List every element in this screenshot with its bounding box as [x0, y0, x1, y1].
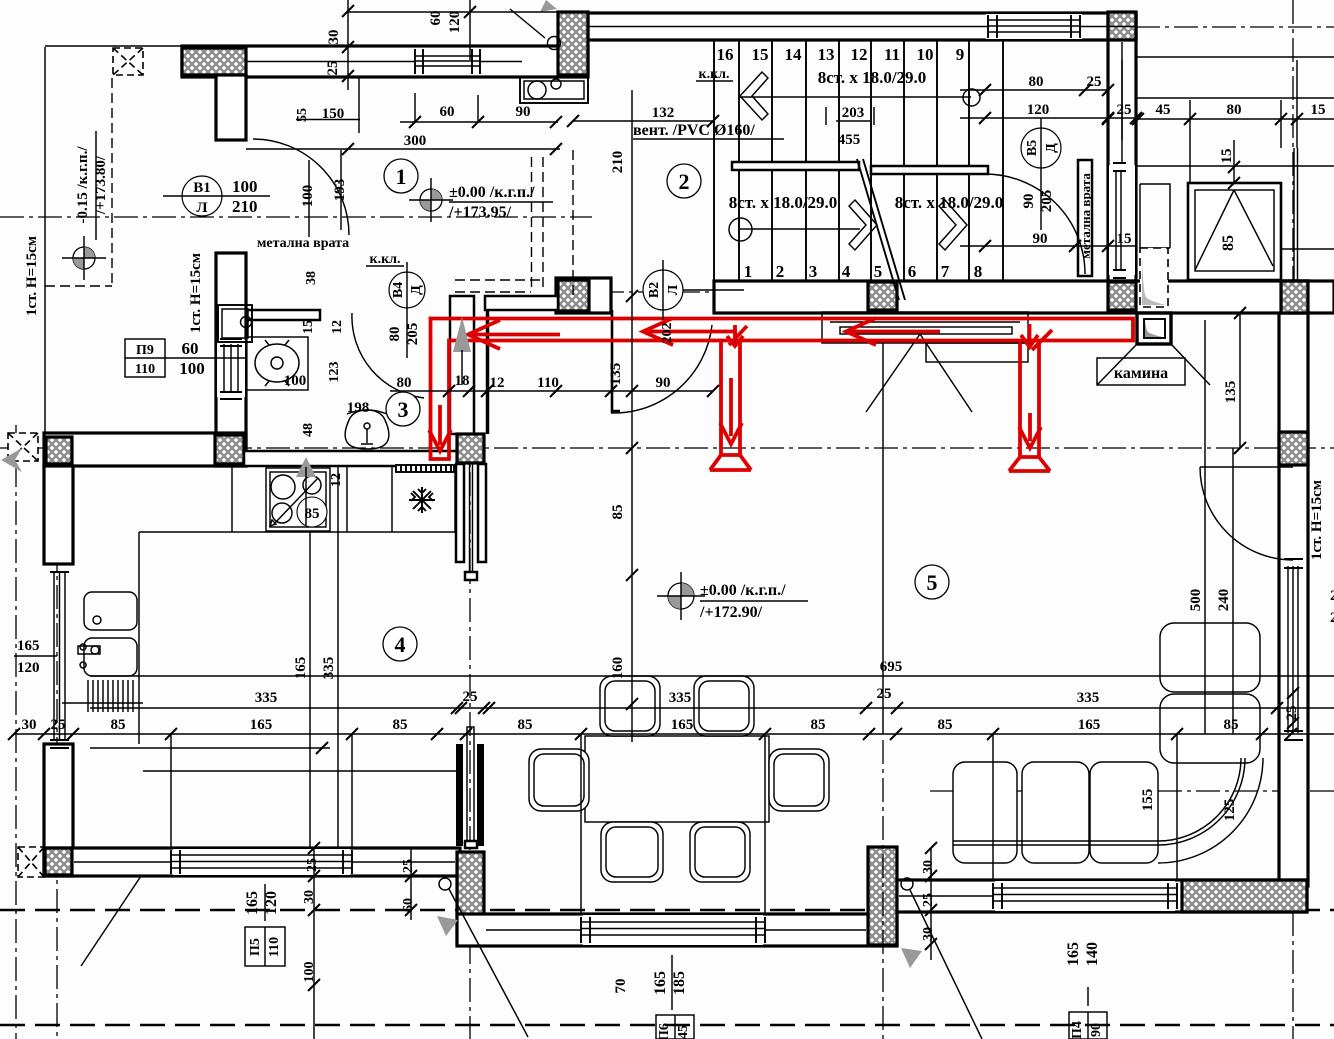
fireplace label box: [1097, 344, 1210, 385]
window in right outer wall: [1281, 559, 1306, 740]
svg-text:240: 240: [1216, 589, 1232, 612]
svg-text:55: 55: [295, 108, 310, 122]
svg-text:695: 695: [880, 659, 903, 675]
svg-text:125: 125: [1222, 799, 1238, 822]
svg-text:300: 300: [404, 133, 427, 149]
svg-text:25: 25: [463, 689, 478, 705]
svg-text:185: 185: [671, 971, 688, 995]
window P5 in bottom-left wall: [171, 849, 352, 875]
svg-text:80: 80: [397, 375, 412, 391]
red arrow in band 2: [643, 318, 737, 345]
svg-text:90: 90: [516, 104, 531, 120]
svg-text:15: 15: [1219, 149, 1235, 164]
svg-text:165: 165: [652, 971, 669, 995]
red path band: [431, 319, 1134, 460]
washing machine: [218, 305, 252, 342]
kitchen passage wall / sliding door: [456, 464, 464, 562]
fireplace lower box: [926, 343, 1028, 362]
entry door arc B1: [253, 139, 349, 235]
svg-text:48: 48: [301, 423, 316, 437]
svg-text:6: 6: [908, 262, 917, 281]
kitchen counter front edge: [139, 532, 455, 744]
svg-text:45: 45: [676, 1025, 691, 1039]
svg-text:150: 150: [322, 106, 345, 122]
room 2: [667, 164, 701, 198]
hatched column right wall / band: [1281, 281, 1308, 313]
vertical dims room5: [1205, 320, 1233, 734]
bottom-right vertical dim chain: [930, 848, 932, 960]
dish rack: [62, 680, 143, 712]
dim 15 window bay: [1233, 140, 1235, 183]
svg-text:30: 30: [921, 927, 936, 941]
svg-text:В5: В5: [1025, 140, 1040, 156]
svg-text:25: 25: [325, 61, 341, 76]
leader bottom-left window: [81, 876, 141, 966]
window in left outer wall: [50, 564, 69, 748]
left outer wall lower piece: [44, 744, 73, 876]
terrace door arc right wall: [1200, 467, 1293, 560]
svg-text:120: 120: [447, 11, 463, 34]
svg-text:60: 60: [428, 11, 444, 26]
hatched wall segment bottom-right: [1182, 880, 1307, 912]
svg-text:25: 25: [1087, 74, 1102, 90]
bottom-left outer wall band: [44, 848, 460, 876]
svg-text:12: 12: [329, 473, 344, 487]
corridor dim row: [390, 390, 713, 392]
grey arrow on stove: [296, 457, 316, 477]
bath left wall: [216, 253, 246, 466]
counter dividers: [232, 466, 455, 532]
room 5: [915, 565, 949, 599]
door id B1: [163, 176, 270, 216]
stair walk circles: [963, 89, 980, 106]
svg-text:90: 90: [1089, 1023, 1104, 1037]
window id P9: [125, 339, 246, 378]
crossed column box left of band: [8, 433, 38, 461]
svg-text:30: 30: [302, 890, 317, 904]
svg-text:25: 25: [401, 859, 416, 873]
slope mark bottom left: [439, 878, 451, 890]
dim top horizontal line: [348, 11, 560, 13]
svg-text:камина: камина: [1114, 365, 1168, 382]
svg-text:8ст. x 18.0/29.0: 8ст. x 18.0/29.0: [818, 68, 927, 87]
dim 55 150 porch: [296, 78, 360, 133]
svg-text:8ст. x 18.0/29.0: 8ст. x 18.0/29.0: [895, 193, 1004, 212]
svg-text:335: 335: [255, 690, 278, 706]
circle 85 over stove: [297, 497, 327, 527]
svg-text:1ст. Н=15см: 1ст. Н=15см: [24, 236, 40, 316]
dim row B: [14, 733, 1334, 735]
svg-text:16: 16: [717, 45, 734, 64]
fireplace flue box: [1137, 313, 1171, 344]
svg-text:15: 15: [301, 320, 316, 334]
hatch pier on right wall (axis level): [1279, 432, 1308, 465]
bath bottom wall: [244, 451, 459, 466]
axis dash-dot lines: [0, 216, 592, 218]
svg-text:3: 3: [809, 262, 818, 281]
stair walk lines: [739, 97, 971, 229]
svg-text:В4: В4: [391, 282, 406, 298]
hall door arc at B2 opening: [611, 325, 712, 413]
sofa corner group: [953, 623, 1263, 863]
window bay 85 top right: [1188, 183, 1281, 280]
stair tread numbers lower flight: [744, 262, 983, 281]
dashed niche box: [1140, 248, 1168, 307]
svg-text:60: 60: [182, 339, 199, 358]
svg-text:120: 120: [263, 891, 280, 915]
svg-text:500: 500: [1188, 589, 1204, 612]
svg-text:85: 85: [811, 717, 826, 733]
dim chain top-left vertical: [347, 0, 349, 90]
svg-text:30: 30: [921, 860, 936, 874]
vertical dims room4: [310, 466, 338, 848]
porch dashed edge: [45, 78, 112, 286]
svg-text:2: 2: [1330, 610, 1334, 626]
door leaf B5: [1078, 160, 1092, 276]
window id P4: [1065, 942, 1107, 1039]
plot boundary long-dash line lower: [0, 1024, 1334, 1026]
svg-text:15: 15: [752, 45, 769, 64]
svg-text:Д: Д: [409, 285, 424, 295]
dim row A 335: [90, 707, 1334, 709]
svg-text:100: 100: [179, 359, 205, 378]
tall hatched pillar right of dining bay: [868, 847, 897, 945]
svg-text:100: 100: [300, 185, 316, 208]
dim B5 area: [960, 90, 1136, 118]
dim 85 left mid: [631, 296, 633, 742]
svg-text:к.кл.: к.кл.: [699, 67, 730, 82]
left wing bottom wall band: [44, 433, 246, 466]
svg-text:8: 8: [974, 262, 983, 281]
bottom-left vertical dim chain: [314, 848, 411, 1039]
left outer wall upper piece: [44, 466, 73, 564]
door leaf B2: [611, 310, 620, 413]
svg-text:120: 120: [1027, 102, 1050, 118]
extension lines for bottom dims: [171, 704, 1177, 914]
axis arrow left: [1, 448, 22, 472]
red right drop: [1009, 341, 1050, 472]
bath left wall upper piece (door jamb): [216, 75, 246, 140]
hatched column below stairs (mid): [868, 282, 897, 310]
svg-text:110: 110: [267, 937, 282, 957]
stair break line: [857, 159, 905, 300]
entry washbasin box at top wall: [520, 77, 588, 103]
toilet: [345, 410, 389, 449]
right outer wall of plan: [1279, 281, 1308, 886]
wall band mid lines: [246, 27, 1136, 62]
svg-text:15: 15: [1117, 231, 1132, 247]
svg-text:Л: Л: [666, 284, 681, 295]
door arc B5: [985, 174, 1085, 274]
window P9 in bath wall: [217, 339, 245, 399]
hatch pier at bath corner: [215, 435, 244, 464]
canopy thin lines top right: [1136, 98, 1334, 249]
svg-text:100: 100: [302, 962, 317, 983]
svg-text:1: 1: [744, 262, 753, 281]
thin pipe lines right side: [1294, 148, 1298, 281]
svg-text:85: 85: [1220, 235, 1237, 251]
svg-text:1: 1: [396, 164, 407, 189]
svg-text:85: 85: [518, 717, 533, 733]
bath top wall: [243, 310, 320, 320]
svg-text:135: 135: [608, 363, 624, 386]
pier next to bay: [1140, 184, 1170, 248]
svg-text:205: 205: [405, 323, 421, 346]
svg-text:85: 85: [393, 717, 408, 733]
svg-text:±0.00 /к.г.п./: ±0.00 /к.г.п./: [449, 184, 535, 201]
svg-text:7: 7: [941, 262, 950, 281]
hatched wall pier top-left: [182, 48, 246, 75]
svg-text:100: 100: [232, 177, 258, 196]
stair landing edge bars: [732, 162, 859, 170]
room 4: [383, 627, 417, 661]
svg-text:15: 15: [1311, 102, 1326, 118]
svg-text:/+173.95/: /+173.95/: [448, 204, 512, 221]
corridor top wall: [485, 296, 558, 310]
dim bracket lines room4: [90, 748, 457, 771]
dim 132 210: [573, 120, 713, 122]
red arrow in band 3: [846, 318, 940, 345]
svg-text:155: 155: [1140, 789, 1156, 812]
room 1: [384, 159, 418, 193]
top outer wall band (entry side): [45, 45, 182, 47]
svg-text:205: 205: [1039, 190, 1055, 213]
door id B5: [1021, 118, 1061, 230]
svg-text:198: 198: [347, 400, 370, 416]
window B1-area 60 in top wall: [413, 48, 482, 75]
level symbol living room: [657, 572, 705, 620]
svg-text:202: 202: [660, 323, 675, 344]
svg-text:25: 25: [921, 893, 936, 907]
hatch pier at kitchen corner: [457, 434, 484, 463]
svg-text:14: 14: [785, 45, 803, 64]
stair direction chevron lower-left: [849, 200, 877, 250]
duct shaft wall (entry/kitchen): [450, 296, 474, 434]
grey door arrow entry: [453, 317, 471, 352]
svg-text:2: 2: [776, 262, 785, 281]
svg-text:5: 5: [927, 570, 938, 595]
svg-text:4: 4: [395, 632, 406, 657]
dim 90 15 B5: [960, 245, 1136, 247]
svg-text:210: 210: [232, 197, 258, 216]
svg-text:165: 165: [671, 717, 694, 733]
svg-text:30: 30: [22, 717, 37, 733]
svg-text:1ст. Н=15см: 1ст. Н=15см: [188, 253, 204, 333]
level symbol hall: [409, 178, 453, 222]
wall piece with hatched column at corridor end: [556, 278, 611, 313]
svg-text:10: 10: [917, 45, 934, 64]
svg-text:85: 85: [1224, 717, 1239, 733]
svg-text:±0.00 /к.г.п./: ±0.00 /к.г.п./: [700, 582, 786, 599]
chair top 2: [694, 676, 754, 736]
svg-text:В1: В1: [193, 180, 211, 196]
freezer symbol: [409, 487, 435, 513]
stair block top wall: [588, 13, 1136, 40]
svg-text:85: 85: [305, 506, 320, 522]
svg-text:8ст. x 18.0/29.0: 8ст. x 18.0/29.0: [729, 193, 838, 212]
svg-text:135: 135: [1223, 381, 1239, 404]
bath door arc B4: [352, 313, 424, 398]
corridor wall stub: [486, 310, 490, 434]
svg-text:85: 85: [610, 505, 626, 520]
kitchen sink double basin: [84, 592, 137, 630]
svg-text:вент. /PVC Ø160/: вент. /PVC Ø160/: [633, 122, 755, 139]
stair tread numbers upper flight: [717, 45, 965, 64]
svg-text:П6: П6: [657, 1023, 672, 1039]
stove: [266, 468, 330, 531]
dim 300: [246, 148, 560, 150]
svg-text:25: 25: [877, 686, 892, 702]
svg-text:110: 110: [537, 375, 559, 391]
svg-text:25: 25: [305, 858, 320, 872]
axis dash-dot top right: [1136, 26, 1334, 28]
window P4 in bottom-right wall: [993, 881, 1177, 911]
svg-text:38: 38: [304, 271, 319, 285]
svg-text:80: 80: [1227, 102, 1242, 118]
svg-text:12: 12: [490, 375, 505, 391]
svg-text:335: 335: [1077, 690, 1100, 706]
fireplace hearth: [822, 312, 1028, 343]
svg-text:90: 90: [1033, 231, 1048, 247]
svg-text:90: 90: [656, 375, 671, 391]
svg-text:210: 210: [610, 151, 626, 174]
red arrow in band 1: [468, 320, 560, 349]
window id P5: [244, 884, 285, 966]
svg-text:11: 11: [884, 45, 900, 64]
hatched column stair/right wall corner: [1108, 282, 1136, 310]
svg-text:60: 60: [401, 898, 416, 912]
svg-text:4: 4: [842, 262, 851, 281]
svg-text:85: 85: [111, 717, 126, 733]
svg-text:5: 5: [874, 262, 883, 281]
svg-text:90: 90: [1021, 194, 1037, 209]
svg-text:120: 120: [17, 660, 40, 676]
dining table: [585, 736, 769, 822]
section mark top: [540, 0, 557, 12]
svg-text:30: 30: [326, 30, 342, 45]
red down arrow in left drop: [429, 405, 451, 451]
svg-text:/+172.90/: /+172.90/: [699, 604, 763, 621]
svg-text:13: 13: [818, 45, 835, 64]
svg-text:80: 80: [387, 327, 403, 342]
hatched pier top of stair right wall: [1108, 12, 1136, 40]
dim 25 right wall low: [1287, 687, 1299, 729]
dim row A 695: [90, 675, 1334, 677]
svg-text:110: 110: [135, 362, 155, 377]
hatch pier bottom-left corner: [45, 848, 72, 875]
dim row top right: [1136, 56, 1334, 58]
svg-text:9: 9: [956, 45, 965, 64]
window P6 in dining bay wall: [581, 915, 765, 945]
red middle drop: [710, 341, 751, 471]
svg-text:12: 12: [851, 45, 868, 64]
chair left: [529, 749, 589, 811]
svg-text:85: 85: [938, 717, 953, 733]
crossed column box on top wall: [113, 48, 143, 75]
dining bay bottom wall: [457, 914, 897, 946]
stair direction chevron upper: [740, 72, 768, 120]
svg-text:2: 2: [1330, 588, 1334, 604]
svg-text:203: 203: [842, 105, 865, 121]
door id B4: [389, 262, 425, 358]
chair top 1: [600, 676, 660, 736]
svg-text:к.кл.: к.кл.: [370, 252, 401, 267]
stair block right wall: [1108, 13, 1136, 281]
svg-text:132: 132: [652, 105, 675, 121]
left porch boundary thin line: [44, 47, 46, 433]
kitchen passage lower wall piece with pocket door: [456, 744, 463, 846]
svg-text:3: 3: [398, 397, 409, 422]
svg-text:метална врата: метална врата: [257, 236, 349, 251]
window in stair top wall: [986, 14, 1082, 39]
level symbol porch: [62, 236, 106, 280]
svg-text:80: 80: [1029, 74, 1044, 90]
svg-text:П9: П9: [136, 343, 154, 358]
svg-text:455: 455: [838, 132, 861, 148]
svg-text:193: 193: [332, 179, 348, 202]
svg-text:165: 165: [17, 638, 40, 654]
svg-text:1ст. Н=15см: 1ст. Н=15см: [1309, 480, 1325, 560]
svg-text:140: 140: [1084, 942, 1101, 966]
svg-text:Л: Л: [196, 200, 207, 216]
svg-text:165: 165: [1078, 717, 1101, 733]
window id P6: [652, 955, 694, 1039]
stair direction chevron lower-right: [939, 200, 967, 250]
svg-text:70: 70: [613, 979, 629, 994]
svg-text:100: 100: [284, 373, 307, 389]
svg-text:Д: Д: [1044, 143, 1059, 153]
svg-text:В2: В2: [647, 282, 662, 298]
svg-text:165: 165: [1065, 942, 1082, 966]
crossed column box bottom-left: [18, 847, 44, 877]
dim 135 fireplace right: [1239, 313, 1241, 448]
svg-text:-0.15 /к.г.п./: -0.15 /к.г.п./: [75, 146, 91, 224]
slope mark bottom right: [901, 878, 913, 890]
svg-text:П5: П5: [248, 938, 263, 956]
hatched column at hall/stair corner (tall): [558, 12, 588, 75]
wall band below stairs: [714, 281, 1334, 313]
svg-text:165: 165: [244, 891, 261, 915]
hatch pier on right wall (mid): [1279, 281, 1308, 313]
svg-text:2: 2: [679, 169, 690, 194]
chair right: [769, 749, 829, 811]
svg-text:12: 12: [330, 320, 345, 334]
svg-text:335: 335: [669, 690, 692, 706]
svg-text:123: 123: [327, 362, 342, 383]
svg-text:П4: П4: [1070, 1021, 1085, 1039]
vent duct dashed lines: [455, 157, 543, 292]
dim 25 kitchen passage: [451, 702, 490, 714]
window in stair right wall: [1109, 163, 1135, 278]
washbasin: [246, 337, 308, 390]
svg-text:25: 25: [1117, 102, 1132, 118]
tall hatched pillar left of dining bay: [457, 852, 484, 944]
radiator strip below bath wall: [396, 465, 454, 472]
dim 60 90 window top: [400, 93, 558, 122]
svg-text:60: 60: [440, 104, 455, 120]
chair bottom 2: [690, 822, 750, 882]
bottom-right outer wall band: [897, 880, 1307, 912]
hatch pier left end: [46, 437, 72, 464]
room 3: [386, 392, 420, 426]
svg-text:45: 45: [1156, 102, 1171, 118]
stair risers: [739, 40, 969, 281]
svg-text:25: 25: [51, 717, 66, 733]
chair bottom 1: [601, 822, 663, 882]
svg-text:18: 18: [455, 373, 470, 389]
terrace long-dash line upper: [0, 909, 1334, 911]
door id B2: [643, 260, 744, 320]
